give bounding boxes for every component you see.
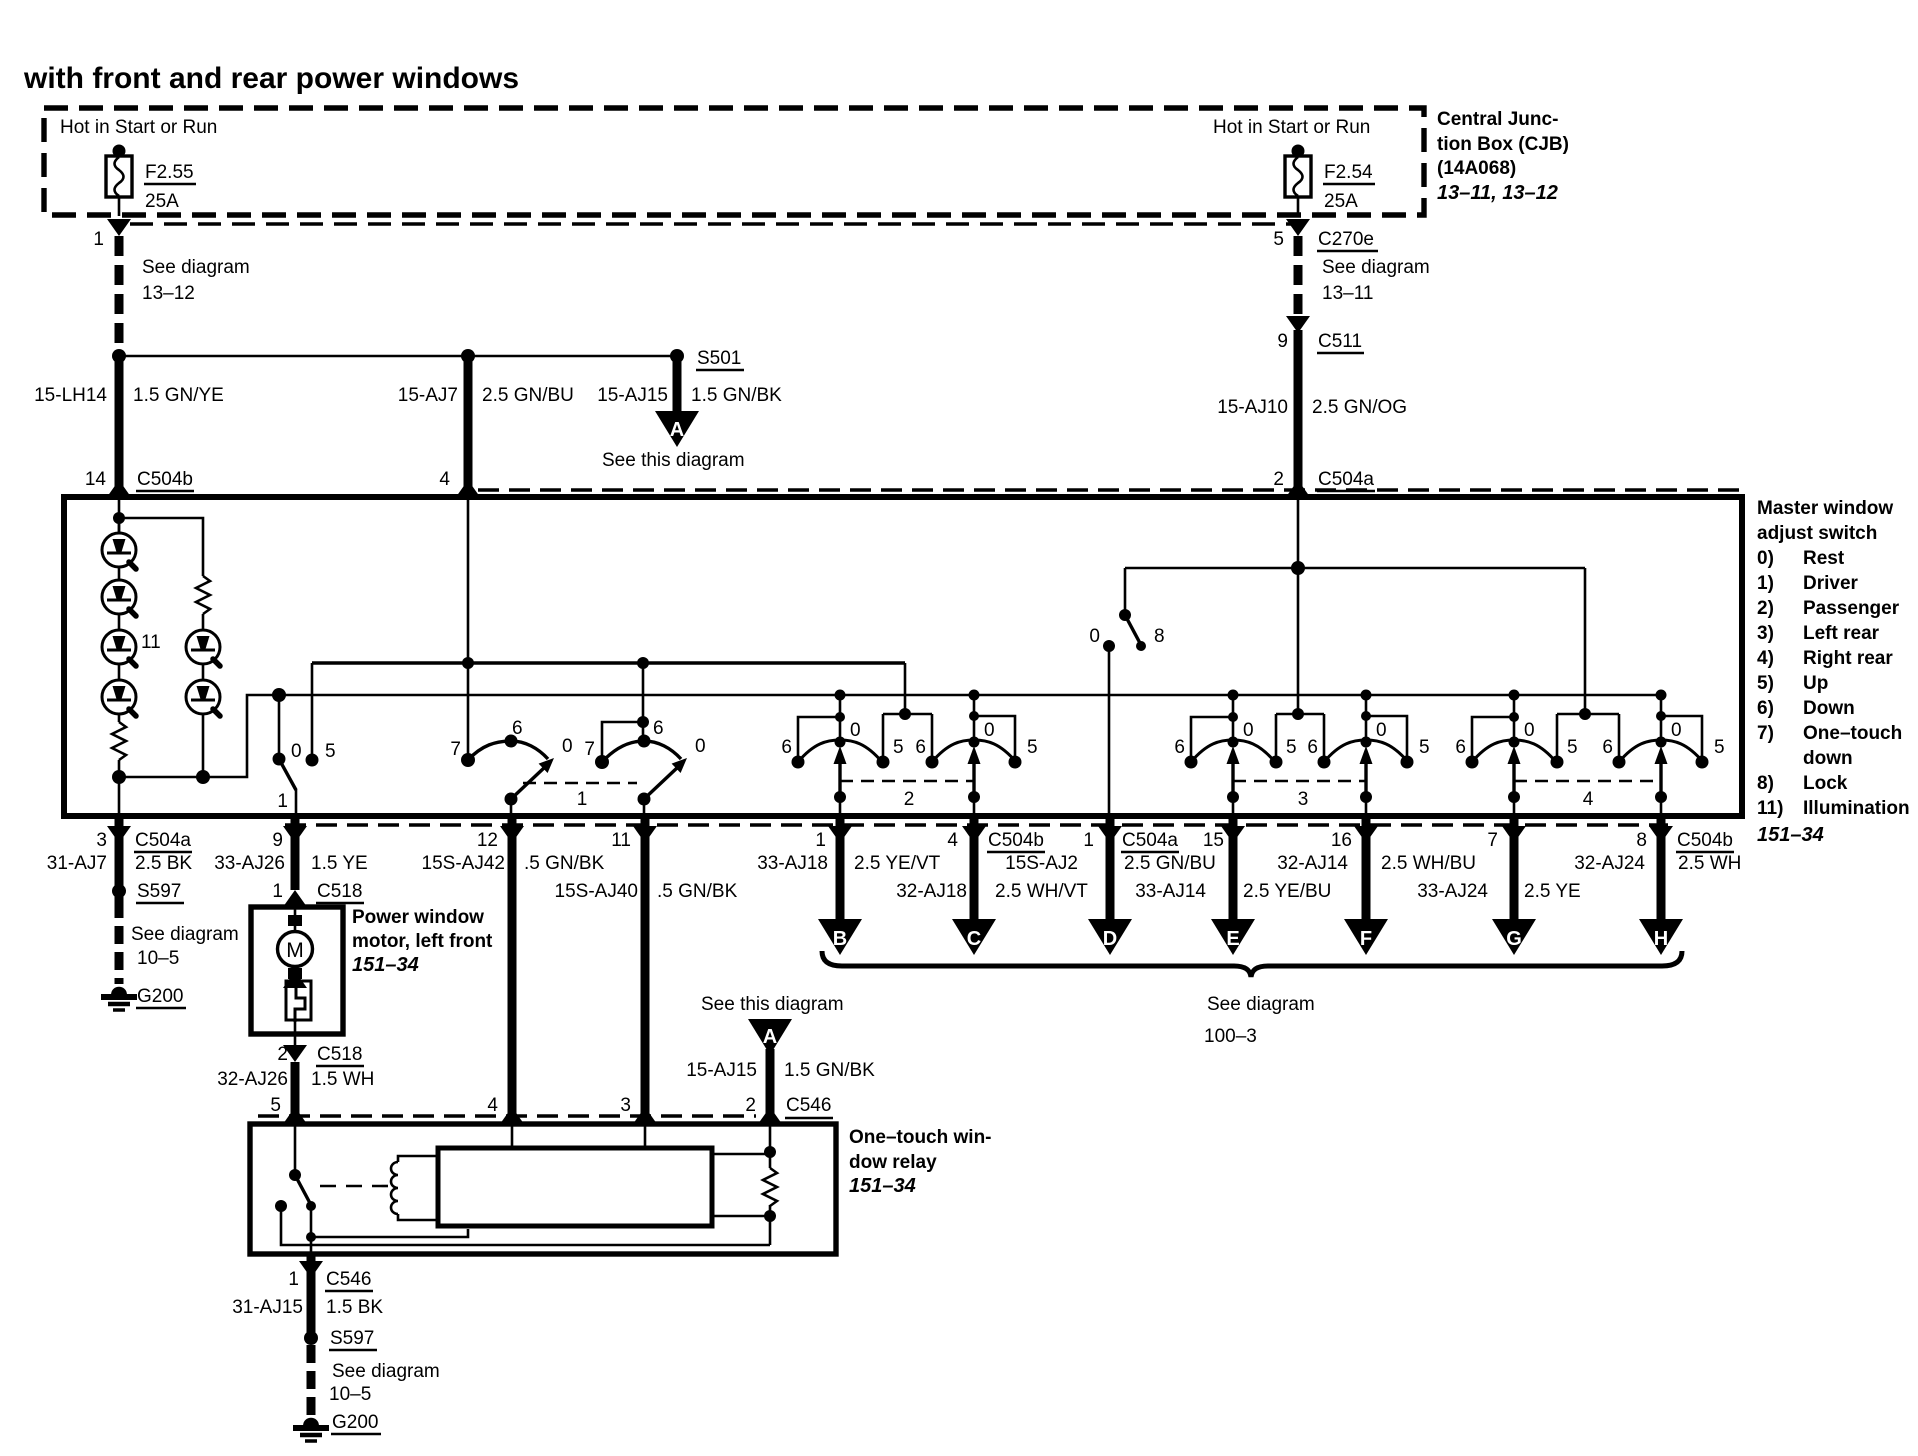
arrow E <box>1211 919 1255 955</box>
svg-text:3: 3 <box>620 1095 631 1116</box>
lamp 5 illumination <box>186 630 220 666</box>
wire 15S-AJ2 pin 1 (lock) to arrow D <box>1098 826 1122 843</box>
svg-text:100–3: 100–3 <box>1204 1026 1257 1047</box>
relay mechanical link <box>320 1185 388 1188</box>
svg-text:See diagram: See diagram <box>1322 257 1430 278</box>
left feed: connector arrow pin 1 <box>107 219 131 236</box>
arrow D <box>1088 919 1132 955</box>
relay pin 2 lead <box>769 1124 772 1168</box>
arrow B <box>818 919 862 955</box>
wire: up rail to driver 5 contact <box>311 663 314 760</box>
svg-text:A: A <box>670 419 684 441</box>
circuit breaker <box>294 977 297 984</box>
connector C504b pin 14 <box>107 480 131 497</box>
rotary switch 2 contact 7 <box>595 755 609 769</box>
svg-text:2.5 WH/BU: 2.5 WH/BU <box>1381 853 1476 874</box>
rotary switch 2 feed from up rail <box>642 663 645 741</box>
svg-text:0: 0 <box>1089 626 1100 647</box>
svg-text:4): 4) <box>1757 648 1774 669</box>
svg-text:5): 5) <box>1757 673 1774 694</box>
driver switch output wire <box>295 789 298 816</box>
arrow C <box>952 919 996 955</box>
rotary switch 2 output pin 11 <box>643 799 646 816</box>
wire: horizontal feed rail to S501 <box>119 355 677 358</box>
svg-text:15-AJ7: 15-AJ7 <box>398 385 458 406</box>
svg-text:1.5 BK: 1.5 BK <box>326 1297 383 1318</box>
svg-text:Power window: Power window <box>352 907 484 928</box>
svg-text:Hot in Start or Run: Hot in Start or Run <box>1213 117 1370 138</box>
gang link passenger pair <box>840 780 974 783</box>
lock switch pivot drop <box>1124 568 1127 615</box>
relay pin 3 lead <box>644 1124 647 1148</box>
svg-text:13–12: 13–12 <box>142 283 195 304</box>
relay switch NC contact return <box>281 1206 770 1245</box>
rotary switch 2 lever <box>644 767 678 799</box>
svg-text:1: 1 <box>577 789 588 810</box>
svg-text:4: 4 <box>439 469 450 490</box>
svg-text:13–11: 13–11 <box>1322 283 1373 304</box>
svg-text:Down: Down <box>1803 698 1855 719</box>
svg-text:tion Box (CJB): tion Box (CJB) <box>1437 134 1569 155</box>
switch 2 passenger down half <box>781 690 903 817</box>
wire to second lamp branch <box>119 518 203 576</box>
driver switch (1): rest contact drop <box>278 695 281 759</box>
wire 33-AJ14 pin 15 to arrow E <box>1221 826 1245 843</box>
svg-text:11: 11 <box>611 830 631 851</box>
svg-text:3: 3 <box>1298 789 1309 810</box>
splice S597 (left) <box>112 884 126 898</box>
svg-text:1): 1) <box>1757 573 1774 594</box>
svg-text:2.5 BK: 2.5 BK <box>135 853 192 874</box>
svg-text:2: 2 <box>1273 469 1284 490</box>
svg-text:motor, left front: motor, left front <box>352 931 493 952</box>
rest rail (0 rail) across box <box>279 694 1661 697</box>
svg-text:8: 8 <box>1154 626 1165 647</box>
wire 33-AJ24 pin 7 to arrow G <box>1502 826 1526 843</box>
driver switch lever <box>279 759 296 790</box>
svg-text:16: 16 <box>1331 830 1352 851</box>
svg-text:32-AJ24: 32-AJ24 <box>1574 853 1645 874</box>
svg-text:15S-AJ42: 15S-AJ42 <box>422 853 505 874</box>
wire 15-AJ10 dashed segment <box>1294 236 1303 318</box>
wire 15-AJ7 inside box to contact 7 <box>467 497 470 760</box>
svg-text:15: 15 <box>1203 830 1224 851</box>
svg-text:Up: Up <box>1803 673 1828 694</box>
svg-text:Illumination: Illumination <box>1803 798 1910 819</box>
connector pin 9 exit (driver switch output) <box>283 826 307 843</box>
svg-text:G200: G200 <box>137 986 183 1007</box>
svg-text:9: 9 <box>272 830 283 851</box>
svg-text:1: 1 <box>1083 830 1094 851</box>
lock switch output wire to pin 1 <box>1108 646 1111 816</box>
svg-text:5: 5 <box>270 1095 281 1116</box>
svg-text:8: 8 <box>1636 830 1647 851</box>
svg-text:7: 7 <box>1487 830 1498 851</box>
node: splice of feed rail <box>112 349 126 363</box>
svg-text:25A: 25A <box>1324 191 1358 212</box>
brace under arrows B-H <box>822 951 1682 977</box>
relay resistor <box>763 1168 777 1206</box>
switch 3 left rear down half <box>1174 690 1296 817</box>
svg-text:4: 4 <box>1583 789 1594 810</box>
svg-text:S597: S597 <box>330 1328 374 1349</box>
svg-text:6: 6 <box>512 718 523 739</box>
svg-text:C504b: C504b <box>1677 830 1733 851</box>
svg-text:15S-AJ2: 15S-AJ2 <box>1005 853 1078 874</box>
svg-text:2: 2 <box>904 789 915 810</box>
wire 15-AJ7 <box>464 356 473 497</box>
svg-text:33-AJ14: 33-AJ14 <box>1135 881 1206 902</box>
wire 32-AJ24 pin 8 to arrow H <box>1649 826 1673 843</box>
rotary switch contact 6 (driver) <box>505 735 518 748</box>
svg-text:1: 1 <box>272 881 283 902</box>
wire 15-LH14 lower segment <box>115 356 124 497</box>
svg-text:Right rear: Right rear <box>1803 648 1893 669</box>
relay pin 4 lead <box>511 1124 514 1148</box>
lamp 6 illumination <box>186 680 220 716</box>
svg-text:5: 5 <box>1273 229 1284 250</box>
lamp 2 illumination <box>102 580 136 616</box>
lamp 3 illumination <box>102 630 136 666</box>
svg-text:14: 14 <box>85 469 107 490</box>
svg-text:F2.54: F2.54 <box>1324 162 1373 183</box>
driver switch contact 0 <box>273 753 286 766</box>
svg-text:B: B <box>833 928 847 950</box>
svg-text:A: A <box>763 1026 777 1048</box>
svg-text:10–5: 10–5 <box>137 948 179 969</box>
svg-text:(14A068): (14A068) <box>1437 158 1516 179</box>
svg-text:15-AJ15: 15-AJ15 <box>686 1060 757 1081</box>
connector C504b pin 4 <box>456 480 480 497</box>
ground G200 (bottom) <box>293 1418 329 1441</box>
svg-text:2.5 GN/OG: 2.5 GN/OG <box>1312 397 1407 418</box>
svg-text:C504a: C504a <box>135 830 191 851</box>
svg-text:151–34: 151–34 <box>352 954 419 976</box>
svg-text:8): 8) <box>1757 773 1774 794</box>
svg-text:15-AJ15: 15-AJ15 <box>597 385 668 406</box>
fuse F2.55 25A <box>113 145 126 158</box>
node: 15-AJ7 joins up rail <box>462 657 474 669</box>
relay contact to control module <box>311 1229 468 1237</box>
wire to rotary 2 contact 7 <box>602 722 643 762</box>
driver switch contact 5 <box>306 754 319 767</box>
splice S501 <box>670 349 684 363</box>
svg-text:2.5 YE/BU: 2.5 YE/BU <box>1243 881 1331 902</box>
rotary switch output pin 12 <box>510 799 513 816</box>
rotary switch 2 contact 6 <box>638 735 651 748</box>
svg-text:F: F <box>1360 928 1372 950</box>
svg-text:See diagram: See diagram <box>1207 994 1315 1015</box>
svg-text:dow relay: dow relay <box>849 1152 937 1173</box>
svg-text:5: 5 <box>325 741 336 762</box>
svg-text:C518: C518 <box>317 881 362 902</box>
one-touch window relay box <box>250 1124 836 1254</box>
switch 4 right rear down half <box>1455 690 1577 817</box>
connector dashed line C504 above switch box <box>478 488 1740 491</box>
svg-text:C504a: C504a <box>1122 830 1178 851</box>
svg-text:25A: 25A <box>145 191 179 212</box>
up rail (5/6 feed rail) <box>312 661 905 664</box>
rotary switch arc (driver one-touch) <box>468 741 548 760</box>
svg-text:G200: G200 <box>332 1412 378 1433</box>
resistor column 1 <box>112 722 126 760</box>
svg-text:31-AJ7: 31-AJ7 <box>47 853 107 874</box>
svg-text:12: 12 <box>477 830 498 851</box>
svg-text:4: 4 <box>487 1095 498 1116</box>
motor M <box>294 907 297 932</box>
node: junction 15-AJ7 <box>461 349 475 363</box>
svg-text:2: 2 <box>745 1095 756 1116</box>
gang link rotary switches <box>523 782 637 785</box>
connector C518 pin 2 <box>283 1045 307 1062</box>
svg-text:15-AJ10: 15-AJ10 <box>1217 397 1288 418</box>
svg-text:2.5 YE: 2.5 YE <box>1524 881 1581 902</box>
arrow F <box>1344 919 1388 955</box>
lock switch contact 0 <box>1103 640 1115 652</box>
relay coil <box>398 1156 438 1220</box>
svg-text:C504b: C504b <box>988 830 1044 851</box>
wire 15-AJ10 solid segment <box>1294 330 1303 497</box>
svg-text:0: 0 <box>562 736 573 757</box>
svg-text:Lock: Lock <box>1803 773 1848 794</box>
svg-text:D: D <box>1103 928 1117 950</box>
splice S597 (bottom) <box>304 1331 318 1345</box>
rotary switch lever (driver down) <box>511 767 545 799</box>
right feed: connector C270e pin 5 <box>1286 219 1310 236</box>
relay electronic module box <box>438 1148 712 1226</box>
svg-text:C546: C546 <box>786 1095 831 1116</box>
gang link right rear pair <box>1514 780 1661 783</box>
svg-text:C511: C511 <box>1318 331 1362 352</box>
wire 15-LH14 dashed segment <box>115 236 124 356</box>
svg-text:3): 3) <box>1757 623 1774 644</box>
svg-text:11): 11) <box>1757 798 1783 819</box>
svg-text:F2.55: F2.55 <box>145 162 194 183</box>
svg-text:0): 0) <box>1757 548 1774 569</box>
svg-text:Driver: Driver <box>1803 573 1859 594</box>
svg-text:See diagram: See diagram <box>131 924 239 945</box>
connector dashed line C504/C518 below switch box <box>285 823 1668 826</box>
svg-text:C546: C546 <box>326 1269 371 1290</box>
svg-text:33-AJ24: 33-AJ24 <box>1417 881 1488 902</box>
node: driver switch rail junction <box>272 688 286 702</box>
svg-text:9: 9 <box>1277 331 1288 352</box>
svg-text:13–11, 13–12: 13–11, 13–12 <box>1437 182 1558 204</box>
switch 4 right rear up half <box>1602 690 1724 817</box>
svg-text:Master window: Master window <box>1757 498 1893 519</box>
svg-text:with front and rear power wind: with front and rear power windows <box>23 62 519 95</box>
wire 15-AJ15 stub <box>673 356 682 413</box>
wire: illumination feed inside box <box>118 497 121 534</box>
resistor branch 2 <box>196 576 210 614</box>
svg-text:Central Junc-: Central Junc- <box>1437 109 1558 130</box>
arrow H <box>1639 919 1683 955</box>
svg-text:.5 GN/BK: .5 GN/BK <box>657 881 738 902</box>
node: lamp bottom junction <box>112 770 126 784</box>
passenger pair feed from up rail <box>904 663 907 714</box>
svg-text:1.5 GN/BK: 1.5 GN/BK <box>691 385 782 406</box>
svg-text:151–34: 151–34 <box>849 1175 916 1197</box>
svg-text:6): 6) <box>1757 698 1774 719</box>
fuse F2.54 25A <box>1292 145 1305 158</box>
connector dashed line C546 above relay box <box>258 1114 756 1117</box>
module to resistor leads <box>712 1154 770 1216</box>
svg-text:H: H <box>1654 928 1668 950</box>
connector C511 pin 9 <box>1286 316 1310 333</box>
svg-text:4: 4 <box>947 830 958 851</box>
wire through lamp column 1 <box>118 518 121 722</box>
svg-text:32-AJ26: 32-AJ26 <box>217 1069 288 1090</box>
svg-text:1.5 YE: 1.5 YE <box>311 853 368 874</box>
svg-text:One–touch win-: One–touch win- <box>849 1127 992 1148</box>
off-page arrow A (S501 to this diagram) <box>655 411 699 447</box>
svg-text:1: 1 <box>93 229 104 250</box>
wire: lamp return to driver switch rest rail <box>119 695 279 777</box>
arrow G <box>1492 919 1536 955</box>
svg-text:33-AJ18: 33-AJ18 <box>757 853 828 874</box>
passenger pair feed bridge <box>883 714 932 762</box>
svg-text:2.5 GN/BU: 2.5 GN/BU <box>482 385 574 406</box>
svg-text:2: 2 <box>277 1044 288 1065</box>
svg-text:C504a: C504a <box>1318 469 1374 490</box>
node: branch2 bottom junction <box>196 770 210 784</box>
svg-text:See diagram: See diagram <box>142 257 250 278</box>
svg-text:10–5: 10–5 <box>329 1384 371 1405</box>
wire branch 2 <box>202 614 205 777</box>
connector C518 pin 1 <box>283 890 307 907</box>
svg-text:2.5 WH/VT: 2.5 WH/VT <box>995 881 1088 902</box>
rotary switch 2 arc <box>602 741 681 762</box>
relay output pin 1 / connector C546 <box>299 1261 323 1278</box>
Central Junction Box (CJB) dashed enclosure <box>44 108 1424 215</box>
svg-text:C504b: C504b <box>137 469 193 490</box>
power window motor box <box>251 907 343 1034</box>
switch 2 passenger up half <box>915 690 1037 817</box>
wire 31-AJ7 to ground <box>115 900 124 984</box>
svg-text:7): 7) <box>1757 723 1774 744</box>
right rear pair feed from lock rail <box>1584 568 1587 714</box>
svg-text:11: 11 <box>141 632 161 653</box>
svg-text:C518: C518 <box>317 1044 362 1065</box>
lamp 4 illumination <box>102 680 136 716</box>
lock switch rail <box>1125 567 1585 570</box>
wire 15S-AJ40 pin 11 to relay pin 3 <box>633 826 657 843</box>
svg-text:6: 6 <box>653 718 664 739</box>
rotary switch contact 7 (driver) <box>461 753 475 767</box>
wire 32-AJ26 to relay pin 5 <box>291 1062 300 1124</box>
svg-text:15-LH14: 15-LH14 <box>34 385 107 406</box>
switch 3 left rear up half <box>1307 690 1429 817</box>
svg-text:M: M <box>286 939 304 962</box>
lock switch lever <box>1125 615 1141 645</box>
svg-text:31-AJ15: 31-AJ15 <box>232 1297 303 1318</box>
svg-text:32-AJ18: 32-AJ18 <box>896 881 967 902</box>
CJB connector dashed line C270e <box>130 222 1292 225</box>
wire 32-AJ14 pin 16 to arrow F <box>1354 826 1378 843</box>
svg-text:0: 0 <box>695 736 706 757</box>
svg-text:S597: S597 <box>137 881 181 902</box>
svg-text:C: C <box>967 928 981 950</box>
gang link left rear pair <box>1233 780 1366 783</box>
svg-text:2): 2) <box>1757 598 1774 619</box>
svg-text:1.5 GN/YE: 1.5 GN/YE <box>133 385 224 406</box>
svg-text:33-AJ26: 33-AJ26 <box>214 853 285 874</box>
wire 15S-AJ42 pin 12 to relay pin 4 <box>500 826 524 843</box>
wire 15-AJ10 inside box <box>1297 497 1300 714</box>
wire 31-AJ15 to ground <box>307 1345 316 1415</box>
svg-text:One–touch: One–touch <box>1803 723 1902 744</box>
svg-text:1.5 WH: 1.5 WH <box>311 1069 374 1090</box>
svg-text:0: 0 <box>291 741 302 762</box>
svg-text:Passenger: Passenger <box>1803 598 1900 619</box>
wire 33-AJ18 pin 1 to arrow B <box>828 826 852 843</box>
svg-text:1: 1 <box>277 791 288 812</box>
svg-text:1: 1 <box>288 1269 299 1290</box>
svg-text:S501: S501 <box>697 348 741 369</box>
svg-text:7: 7 <box>584 739 595 760</box>
svg-text:See diagram: See diagram <box>332 1361 440 1382</box>
svg-text:2.5 GN/BU: 2.5 GN/BU <box>1124 853 1216 874</box>
svg-text:151–34: 151–34 <box>1757 824 1824 846</box>
svg-text:E: E <box>1226 928 1239 950</box>
svg-text:.5 GN/BK: .5 GN/BK <box>524 853 605 874</box>
svg-text:C270e: C270e <box>1318 229 1374 250</box>
svg-text:3: 3 <box>96 830 107 851</box>
svg-text:32-AJ14: 32-AJ14 <box>1277 853 1348 874</box>
svg-text:7: 7 <box>450 739 461 760</box>
svg-text:15S-AJ40: 15S-AJ40 <box>555 881 638 902</box>
wire 32-AJ18 pin 4 to arrow C <box>962 826 986 843</box>
relay switch common to pin 1 <box>310 1206 313 1254</box>
svg-text:2.5 YE/VT: 2.5 YE/VT <box>854 853 941 874</box>
svg-text:down: down <box>1803 748 1853 769</box>
connector C504a pin 3 exit <box>107 826 131 843</box>
svg-text:2.5 WH: 2.5 WH <box>1678 853 1741 874</box>
wire column1 bottom <box>118 760 121 816</box>
svg-text:See this diagram: See this diagram <box>602 450 745 471</box>
relay switch <box>294 1124 297 1175</box>
right rear pair feed bridge <box>1557 714 1619 762</box>
svg-text:1.5 GN/BK: 1.5 GN/BK <box>784 1060 875 1081</box>
lamp 1 illumination <box>102 533 136 569</box>
connector C504a pin 2 <box>1286 480 1310 497</box>
ground G200 (left) <box>101 987 137 1010</box>
left rear pair feed bridge <box>1276 714 1324 762</box>
svg-text:G: G <box>1506 928 1522 950</box>
node: lamp branch junction <box>113 512 125 524</box>
Master window adjust switch box <box>64 497 1742 816</box>
svg-text:Left rear: Left rear <box>1803 623 1880 644</box>
svg-text:Hot in Start or Run: Hot in Start or Run <box>60 117 217 138</box>
svg-text:1: 1 <box>815 830 826 851</box>
svg-text:Rest: Rest <box>1803 548 1845 569</box>
svg-text:adjust switch: adjust switch <box>1757 523 1877 544</box>
svg-text:See this diagram: See this diagram <box>701 994 844 1015</box>
